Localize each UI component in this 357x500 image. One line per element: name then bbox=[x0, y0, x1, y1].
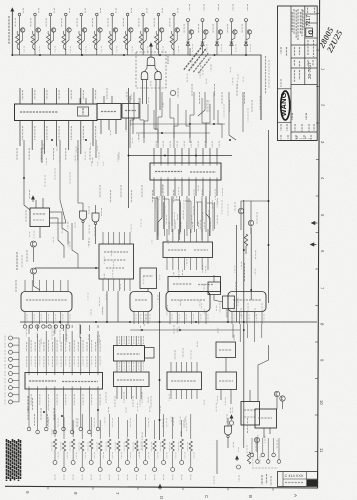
CTS rotated labels at rail bbox=[265, 56, 267, 94]
extra U3 descent wires bbox=[158, 196, 162, 240]
wires top mid fill bbox=[189, 48, 191, 56]
zone ticks and numbers right margin bbox=[315, 14, 326, 489]
bottom column labels row bbox=[55, 475, 191, 482]
pullup network R9/Q9 bbox=[139, 8, 149, 55]
U3 bus labels dense bbox=[155, 198, 217, 232]
pullup network R3/Q3 bbox=[46, 8, 56, 55]
pullup network R5/Q5 bbox=[77, 8, 87, 55]
gate U10A bbox=[147, 57, 155, 66]
long rail x159 bbox=[159, 292, 161, 440]
pullup network R24/CR24 bbox=[242, 4, 251, 55]
horizontal rail y322 bbox=[20, 321, 317, 323]
output pin network R63 bbox=[266, 438, 270, 463]
IC U2 (mid box) bbox=[97, 104, 121, 120]
WANG logo oval bbox=[281, 91, 290, 120]
connector J1 top pins bbox=[25, 280, 68, 292]
output network R46 bbox=[106, 439, 112, 465]
resistor R70 bbox=[247, 452, 250, 464]
assorted mid-page wires bbox=[106, 291, 108, 322]
wires bottom right bbox=[243, 430, 245, 448]
IC U21 bbox=[114, 346, 145, 362]
IC U24 bbox=[216, 342, 236, 358]
output network R52 bbox=[160, 439, 166, 465]
output network R49 bbox=[133, 441, 139, 472]
J4 descent wires bbox=[233, 324, 262, 342]
CTTRN label bbox=[244, 263, 246, 282]
output network R50 bbox=[142, 439, 148, 465]
+5V arrow bottom bbox=[236, 456, 239, 461]
IC U5b bbox=[140, 268, 157, 289]
wire y268 left bbox=[35, 267, 99, 269]
gate U30 (driver) bbox=[225, 426, 232, 435]
IC U1 (top-left DIP) bbox=[15, 104, 98, 121]
IC U4 (C17 box) bbox=[30, 208, 50, 227]
FTTK label bbox=[16, 252, 18, 270]
dashed option box bbox=[136, 52, 166, 88]
output pin network R60 bbox=[250, 438, 254, 457]
revision box bbox=[278, 472, 318, 487]
output pin network R62 bbox=[261, 438, 265, 457]
crystal Y1 inside U1 bbox=[79, 98, 81, 104]
IC U7 bbox=[163, 242, 213, 258]
TOP note labels right bbox=[192, 84, 252, 112]
RTTM terminal bbox=[237, 465, 241, 469]
gate side label bbox=[167, 56, 169, 64]
IC U3 (mid DIP) bbox=[150, 163, 221, 180]
border frame bottom edge bbox=[5, 486, 318, 488]
pullup network R4/Q4 bbox=[62, 8, 72, 55]
transistor Q50 bbox=[274, 391, 279, 396]
labels y390-410 mid bbox=[106, 392, 151, 407]
U2b pins bbox=[125, 118, 127, 130]
rails x236 x243 x251 bbox=[236, 225, 238, 322]
FTTR wires left-bottom bbox=[28, 408, 54, 426]
border arrow marker 2 bbox=[311, 243, 317, 246]
FF boxes bbox=[208, 282, 221, 295]
bottom right labels bbox=[246, 445, 248, 456]
U3 to U5 vertical bus bbox=[157, 196, 210, 240]
title block dividers bbox=[290, 6, 292, 141]
+5V arrow above C17 bbox=[32, 196, 35, 202]
horizontal rail y155 bbox=[128, 155, 232, 157]
pullup network R7/Q7 bbox=[108, 8, 118, 55]
IC U20 (lower-left DIP 7774) bbox=[25, 373, 103, 390]
wires left mid bbox=[24, 160, 30, 210]
border frame right edge bbox=[318, 0, 320, 488]
IC U3 top pins + labels bbox=[154, 148, 217, 163]
output network R47 bbox=[115, 441, 121, 472]
output pin network R65 bbox=[277, 438, 281, 463]
border arrow marker bbox=[312, 221, 318, 224]
note text left of revision box bbox=[261, 475, 263, 485]
labels under J4 bbox=[220, 303, 262, 318]
revision dark cell bbox=[307, 479, 317, 486]
left edge connector pins P1 bbox=[5, 336, 19, 405]
IC U20 bottom pins bbox=[29, 389, 100, 413]
IC U20 top pins long bbox=[29, 331, 100, 373]
IC U5 bbox=[99, 244, 134, 279]
output network R42 bbox=[70, 439, 76, 465]
gate-to-U5 wires bbox=[62, 212, 68, 244]
fill labels y205 right bbox=[221, 200, 223, 214]
gate U6A bbox=[80, 211, 87, 220]
IC U8 bbox=[168, 277, 221, 292]
pullup network R1/Q1 bbox=[15, 8, 25, 55]
output pin network R61 bbox=[256, 438, 260, 463]
output network R51 bbox=[151, 441, 157, 472]
output network R48 bbox=[124, 439, 130, 465]
FTTR label lower left bbox=[27, 396, 29, 412]
IC U23 bbox=[167, 372, 202, 390]
output network R45 bbox=[97, 441, 104, 472]
top bus A bbox=[12, 54, 186, 56]
wires right cluster bbox=[251, 200, 268, 202]
long rail x268 bbox=[268, 130, 270, 303]
U20 terminal circles row bbox=[27, 409, 100, 434]
output network R54 bbox=[179, 439, 185, 465]
+12V mark bbox=[229, 421, 233, 425]
pullup network R22/CR22 bbox=[213, 4, 222, 55]
IC U1 top pin labels bbox=[23, 90, 96, 100]
IC U2b (+5V box) bbox=[122, 104, 139, 119]
gate U6B bbox=[92, 213, 99, 222]
pullup network R23/CR23 bbox=[228, 4, 237, 55]
U2 pins bbox=[100, 120, 102, 135]
transistor Q52 bbox=[254, 437, 259, 442]
output network R44 bbox=[88, 439, 94, 465]
+5V rail left bbox=[11, 12, 13, 55]
output pin network R64 bbox=[272, 438, 276, 457]
pullup network R20/CR20 bbox=[184, 4, 193, 55]
output network R43 bbox=[79, 441, 85, 472]
cell corner marks bbox=[291, 113, 293, 120]
connector J2 bbox=[130, 292, 152, 325]
+5V rail label bbox=[8, 16, 10, 44]
transistor Q30 bbox=[31, 241, 37, 247]
wire maze x150-215 y198-238 bbox=[152, 198, 213, 236]
IC U25 bbox=[216, 372, 237, 390]
output network R40 bbox=[52, 439, 58, 465]
IC U21 appendix bbox=[145, 348, 155, 359]
IC U27 bbox=[255, 409, 277, 428]
horizontal rail y330 partial bbox=[130, 329, 240, 331]
J1 pin terminal circles bbox=[23, 325, 69, 328]
mid labels row bbox=[100, 185, 174, 203]
output network R55 bbox=[188, 441, 194, 472]
pullup network R21/CR21 bbox=[199, 4, 208, 55]
title block outer bbox=[278, 6, 318, 141]
gate U10B bbox=[141, 72, 148, 80]
long rail x128 bbox=[128, 88, 130, 208]
gate U10C bbox=[155, 72, 161, 80]
pullup network R6/Q6 bbox=[93, 8, 103, 55]
wire maze between U1 and U3 bbox=[130, 92, 225, 148]
pullup network R2/Q2 bbox=[31, 8, 41, 55]
label rows above U20 bbox=[27, 342, 96, 367]
paper grain bbox=[0, 0, 1, 1]
IC U20 mid-span wires to top bbox=[29, 325, 98, 334]
pullup network R10/Q10 bbox=[154, 8, 164, 55]
bus wires below U1 bbox=[23, 140, 25, 160]
scattered small labels (scan texture) bbox=[26, 61, 277, 457]
output network R53 bbox=[170, 441, 176, 472]
transistor Q41 bbox=[248, 220, 253, 225]
title block cell texts (illegible) bbox=[281, 8, 315, 140]
bottom bus wires bbox=[55, 414, 191, 439]
transistor Q31 bbox=[31, 268, 37, 274]
IC U22 bbox=[114, 372, 150, 387]
zone letters bottom margin bbox=[25, 486, 298, 500]
labels near y335 left bbox=[51, 328, 53, 340]
IC U3 bottom pins bbox=[154, 180, 217, 196]
IC U1 bottom labels bbox=[17, 121, 96, 161]
notes list (rotated text block) bbox=[7, 439, 21, 481]
handwritten note 28005 bbox=[317, 26, 345, 55]
FTTR label mid left bbox=[15, 280, 17, 292]
connector J1 bbox=[21, 292, 72, 325]
gate wiring bbox=[150, 46, 152, 57]
connector J3 bbox=[166, 292, 210, 325]
output network R41 bbox=[61, 441, 67, 472]
pullup network R11/Q11 bbox=[170, 8, 180, 55]
transistor Q51 bbox=[280, 396, 285, 401]
note callout slanted bbox=[184, 44, 214, 78]
IC U26 bbox=[241, 402, 260, 426]
top bus B (merged with main) bbox=[186, 55, 261, 120]
pullup network R8/Q8 bbox=[123, 8, 133, 55]
connector J4 bbox=[228, 292, 266, 325]
wire TP stub bbox=[216, 440, 218, 474]
drawing number D 7217 bbox=[306, 28, 313, 37]
IC U1 top pins bbox=[20, 88, 93, 104]
transistor Q40 bbox=[238, 208, 243, 213]
labels right mid top bbox=[208, 100, 210, 112]
